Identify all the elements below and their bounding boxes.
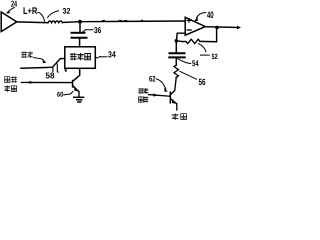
box text glyph 3 <box>85 54 91 60</box>
output wire with arrow <box>205 26 238 29</box>
transistor Q60 base bar <box>72 80 74 88</box>
op-amp 40 <box>185 17 205 35</box>
ground <box>74 97 84 102</box>
label 24 <box>7 1 17 14</box>
control signal text left: glyph 3 <box>5 86 10 92</box>
label 52 <box>199 44 218 60</box>
label 62 <box>149 76 167 92</box>
feedback resistor 52 <box>182 39 200 43</box>
control signal text right: glyph 2 <box>144 88 148 93</box>
wire resistor to Q62 collector <box>171 77 176 94</box>
output label (Chinese) glyph 1 <box>22 52 27 58</box>
box text glyph 1 <box>70 54 76 60</box>
minus input mark <box>187 29 191 31</box>
label 54 <box>178 59 199 67</box>
Q60 emitter <box>73 86 78 91</box>
control signal text right: glyph 4 <box>144 97 148 102</box>
output label glyph 2 <box>28 52 33 58</box>
inductor 32 <box>48 21 62 23</box>
control wire to Q62 base <box>149 95 170 97</box>
Q62 emitter <box>171 99 176 103</box>
label 40 <box>195 11 214 21</box>
amplifier 24 <box>1 12 17 32</box>
transistor Q62 base bar <box>170 91 172 103</box>
control signal text right: glyph 1 <box>139 88 144 93</box>
label 32 <box>48 8 71 17</box>
resistor 56 (vertical) <box>174 65 178 77</box>
output label leader arrow <box>34 58 46 63</box>
stub under box bottom-left corner <box>64 68 67 71</box>
control signal text left: glyph 1 <box>5 77 10 83</box>
box text glyph 2 <box>78 54 84 60</box>
control signal text right: glyph 3 <box>139 97 144 102</box>
junction speck <box>141 20 144 23</box>
speck on wire <box>125 20 127 22</box>
bias label glyph 2 <box>181 114 187 120</box>
box bottom pin <box>73 68 79 81</box>
control signal wire to Q60 base <box>22 81 72 83</box>
capacitor 36 <box>72 22 87 47</box>
stub under corner <box>52 67 54 71</box>
feedback wire <box>200 28 217 42</box>
junction node <box>78 20 82 24</box>
wire L+R from amp to inductor <box>17 21 48 24</box>
arrowhead on control wire <box>29 81 33 84</box>
box left output wire <box>21 59 65 69</box>
node label L+R <box>24 7 45 21</box>
minus input wire <box>176 33 185 41</box>
bias label glyph 1 <box>172 114 178 120</box>
label 36 <box>83 27 101 33</box>
control signal text left: glyph 2 <box>11 77 16 83</box>
label 60 <box>57 91 73 96</box>
plus input mark <box>187 19 191 23</box>
junction node minus <box>175 39 179 43</box>
wire inductor to op-amp <box>62 21 185 23</box>
arrowhead <box>153 93 157 96</box>
oscillator box 34 <box>65 47 96 69</box>
label 34 <box>95 51 116 58</box>
control signal text left: glyph 4 <box>11 86 16 92</box>
label 58 <box>46 73 55 79</box>
speck on wire <box>103 20 105 22</box>
stub 58 <box>56 64 59 72</box>
capacitor 54 <box>169 42 184 65</box>
label 56 <box>180 71 206 85</box>
speck on wire <box>119 19 122 21</box>
output junction node <box>215 26 219 30</box>
